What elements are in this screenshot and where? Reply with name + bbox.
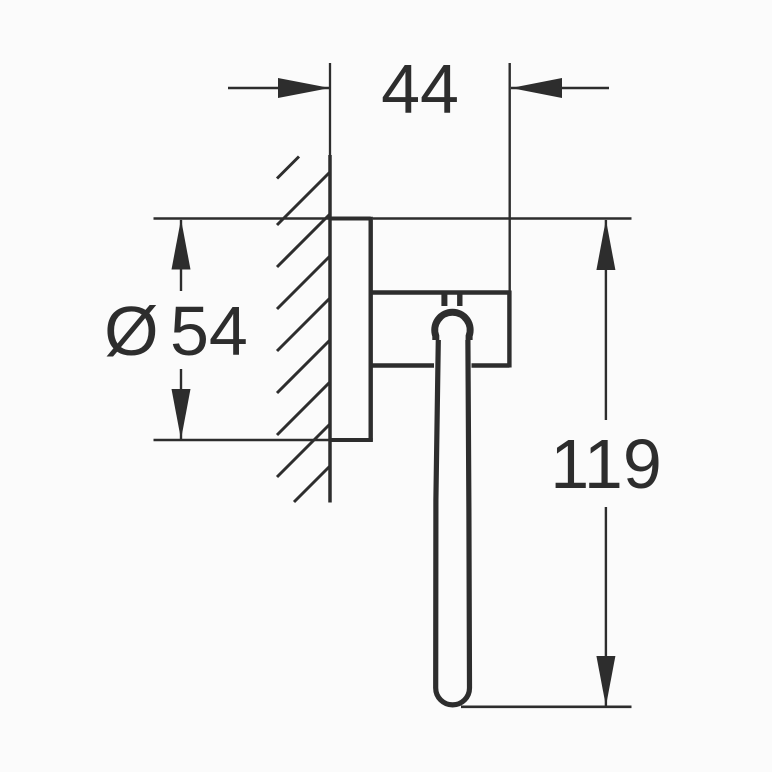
mounting plate top line <box>330 217 371 221</box>
svg-text:44: 44 <box>381 50 459 128</box>
ring loop <box>436 340 470 705</box>
extension line top of 119 dim <box>373 217 632 219</box>
dimension 54 down arrow <box>172 389 191 440</box>
extension line bottom of diameter 54 dim <box>154 439 331 442</box>
dimension 44 right line <box>511 87 609 89</box>
dimension 44 left line <box>228 87 330 89</box>
arm bottom line left segment <box>371 363 434 367</box>
dimension 54 line lower segment <box>180 369 182 440</box>
arm right edge <box>507 291 511 368</box>
ring pin left bar <box>441 293 447 306</box>
dimension 119 line lower segment <box>605 507 607 706</box>
wall hatching <box>277 157 330 503</box>
dimension 119 line upper segment <box>605 220 607 420</box>
extension line left of 44 dim <box>329 63 331 158</box>
dimension 44 left arrow <box>278 78 330 98</box>
mounting plate bottom line <box>330 438 373 442</box>
wall line <box>328 155 332 503</box>
dimension 119 down arrow <box>596 656 615 706</box>
arm bottom line right segment <box>472 363 510 367</box>
arm top line <box>371 290 510 294</box>
extension line top of diameter 54 dim <box>154 217 331 220</box>
mounting plate right edge <box>369 217 373 442</box>
dimension 54 line upper segment <box>180 220 182 291</box>
dimension 44 right arrow <box>511 78 562 98</box>
ring top bulb <box>435 312 470 340</box>
extension line bottom of 119 dim <box>461 705 632 708</box>
ring pin right bar <box>457 293 462 306</box>
svg-text:119: 119 <box>550 425 662 503</box>
dimension 119 up arrow <box>596 220 615 271</box>
svg-text:Ø 54: Ø 54 <box>104 292 248 370</box>
dimension 54 up arrow <box>172 219 191 270</box>
extension line right of 44 dim <box>509 63 511 292</box>
